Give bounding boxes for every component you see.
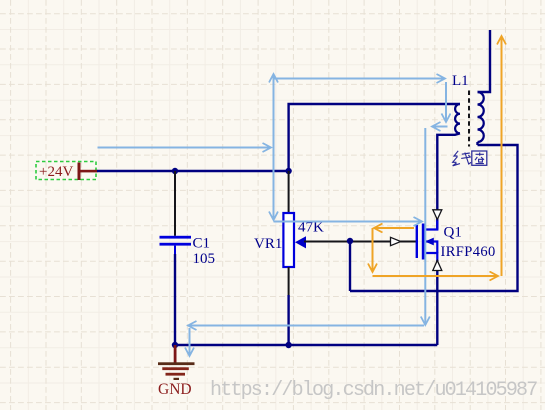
transistor Q1 gate bar	[416, 225, 418, 258]
node junction ground at VR1	[285, 342, 291, 348]
annotation yellow arrow M rightward bottom	[373, 275, 499, 277]
wire Q1 source to ground rail	[436, 260, 438, 345]
ground GND bar1	[158, 362, 195, 365]
svg-text:VR1: VR1	[254, 236, 282, 252]
node junction gate tap	[347, 238, 353, 244]
inductor L1 secondary winding	[477, 92, 483, 142]
annotation blue arrow J to 47K gate	[274, 221, 423, 223]
annotation blue arrow D down at L1	[445, 82, 447, 122]
svg-text:GND: GND	[158, 381, 192, 398]
wire VR1 to ground rail	[287, 295, 289, 345]
annotation yellow arrow N up right side	[501, 36, 503, 276]
open arrow on source wire pointing up	[433, 261, 442, 271]
annotation blue arrow G bottom leftward	[188, 325, 424, 327]
wire gate line from wiper to Q1	[304, 241, 417, 243]
transistor Q1 source lead	[425, 253, 438, 260]
annotation blue arrow A along +24V rail	[98, 147, 272, 149]
node junction ground at C1	[172, 342, 178, 348]
transistor Q1 bulk lead	[426, 242, 437, 254]
open arrow on drain wire pointing down	[433, 210, 442, 220]
svg-text:+24V: +24V	[39, 164, 73, 180]
ground GND bar4	[174, 378, 180, 380]
transistor Q1 bulk arrow	[425, 238, 434, 246]
power port +24V selection box	[36, 162, 96, 180]
pin VR1 bottom lead	[288, 267, 290, 295]
power port +24V bar	[78, 163, 81, 181]
node junction VR1 tap	[285, 168, 291, 174]
potentiometer VR1 wiper arrow	[295, 236, 306, 248]
svg-text:https://blog.csdn.net/u0141059: https://blog.csdn.net/u014105987	[210, 379, 537, 402]
annotation blue arrow B vertical double	[273, 74, 275, 220]
ground GND bar2	[162, 367, 189, 370]
wire +24V stub	[81, 170, 98, 173]
wire L1 primary bottom to Q1 drain	[437, 133, 460, 229]
node junction C1 tap	[172, 168, 178, 174]
annotation blue line F vertical from L1 to bottom	[424, 128, 426, 325]
annotation yellow arrow L down	[372, 228, 374, 272]
svg-text:105: 105	[193, 251, 216, 267]
pin VR1 top lead	[288, 171, 290, 213]
wire riser to L1 (vertical x=288.6 and horizontal y=104)	[289, 104, 460, 171]
ground rail wire	[175, 344, 437, 346]
svg-text:Q1: Q1	[444, 225, 462, 241]
potentiometer VR1 body	[283, 213, 294, 267]
svg-text:L1: L1	[452, 73, 469, 89]
annotation blue arrow C to L1	[274, 78, 446, 80]
wire L1 secondary bottom stub	[476, 142, 478, 145]
capacitor C1 plates	[160, 236, 192, 239]
annotation blue arrow H down at GND	[189, 328, 191, 356]
label coil 线圈 (vector strokes)	[453, 151, 487, 166]
transistor Q1 drain lead	[425, 219, 438, 230]
transistor Q1 channel bar	[422, 224, 425, 260]
wire main +24V rail	[97, 170, 289, 172]
wire C1 to ground rail	[174, 254, 176, 345]
pin C1 top lead	[174, 171, 176, 236]
annotation yellow arrow K leftward at gate	[374, 227, 414, 229]
wire bottom feedback rail to L1 secondary	[350, 145, 518, 291]
annotation blue arrow E left stub at L1	[432, 126, 448, 128]
ground GND bar3	[166, 373, 186, 376]
svg-text:C1: C1	[193, 236, 211, 252]
wire gate tap down	[349, 241, 351, 291]
inductor L1 primary winding	[455, 104, 460, 133]
wire L1 secondary top output	[478, 30, 491, 92]
pin C1 bottom lead	[174, 246, 176, 254]
svg-text:IRFP460: IRFP460	[441, 244, 496, 260]
inductor L1 core dashed	[468, 91, 470, 147]
open arrow on gate wire	[391, 237, 401, 245]
ground GND stem	[174, 345, 177, 363]
